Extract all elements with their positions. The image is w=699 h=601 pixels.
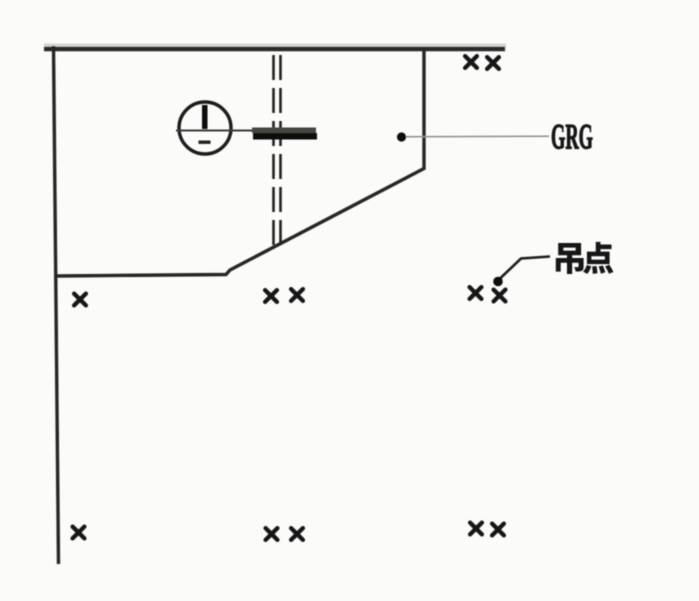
hanging point label leader [500, 257, 551, 280]
x mark mid right 2 [494, 290, 506, 302]
x mark mid center 2 [291, 289, 303, 301]
x mark mid center 1 [265, 290, 277, 302]
GRG panel outline [56, 49, 424, 276]
top slab line [44, 44, 506, 52]
label 点 [583, 242, 613, 274]
x mark bottom right 1 [470, 523, 482, 535]
GRG leader line [406, 135, 549, 138]
svg-text:GRG: GRG [551, 117, 593, 157]
main runner thick bar lower [253, 133, 317, 140]
x mark bottom center 2 [291, 528, 303, 540]
x mark bottom right 2 [492, 524, 504, 536]
x mark top right 1 [465, 56, 477, 68]
hanging point dot [493, 277, 503, 287]
x mark mid left [74, 294, 86, 306]
x mark bottom left [73, 527, 85, 539]
x mark top right 2 [487, 57, 499, 69]
x mark bottom center 1 [266, 528, 278, 540]
GRG leader dot [397, 132, 406, 141]
hanger rod dashed line left [272, 55, 275, 246]
label 吊 [556, 243, 584, 274]
hanger rod dashed line right [279, 55, 282, 249]
x mark mid right 1 [470, 287, 482, 299]
bubble leader thin line [176, 130, 256, 132]
left wall line [54, 46, 59, 564]
detail bubble circle 1 [179, 102, 231, 154]
main runner thick bar upper [252, 128, 316, 134]
